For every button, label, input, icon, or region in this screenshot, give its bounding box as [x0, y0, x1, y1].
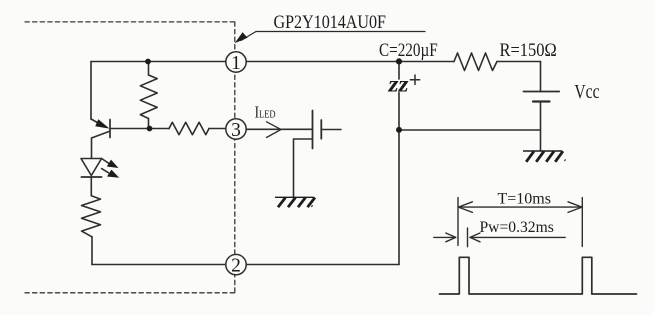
svg-text:1: 1 — [231, 53, 241, 74]
svg-text:C=220µF: C=220µF — [379, 41, 438, 61]
svg-text:2: 2 — [231, 255, 241, 276]
svg-text:3: 3 — [231, 120, 241, 141]
svg-text:zz: zz — [387, 72, 408, 97]
svg-text:GP2Y1014AU0F: GP2Y1014AU0F — [274, 12, 387, 33]
svg-text:Vcc: Vcc — [574, 82, 599, 103]
svg-text:Pw=0.32ms: Pw=0.32ms — [480, 219, 554, 236]
svg-text:R=150Ω: R=150Ω — [500, 41, 557, 61]
svg-text:T=10ms: T=10ms — [498, 190, 551, 207]
